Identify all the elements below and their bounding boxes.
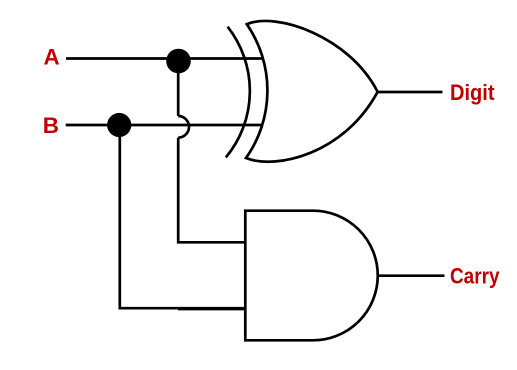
wire hop over B [178,116,189,138]
and-gate U2 body [245,211,377,341]
wire from hop down to AND top input [178,138,245,243]
wire AND bottom input stub overlap [178,308,246,311]
node A junction dot [166,49,191,74]
wire from node A down to hop [177,61,180,116]
wire A input horizontal [66,57,263,60]
svg-text:Carry: Carry [450,264,500,289]
xor-gate U1 body [246,21,378,162]
wire XOR output to Digit [377,91,443,94]
svg-text:A: A [44,45,60,70]
svg-text:B: B [43,113,59,138]
wire from node B down to AND bottom input [120,125,246,308]
node B junction dot [107,113,131,137]
wire B input horizontal [66,124,263,127]
wire AND output to Carry [378,274,445,277]
svg-text:Digit: Digit [450,80,495,105]
xor-gate U1 extra input arc [226,27,250,158]
